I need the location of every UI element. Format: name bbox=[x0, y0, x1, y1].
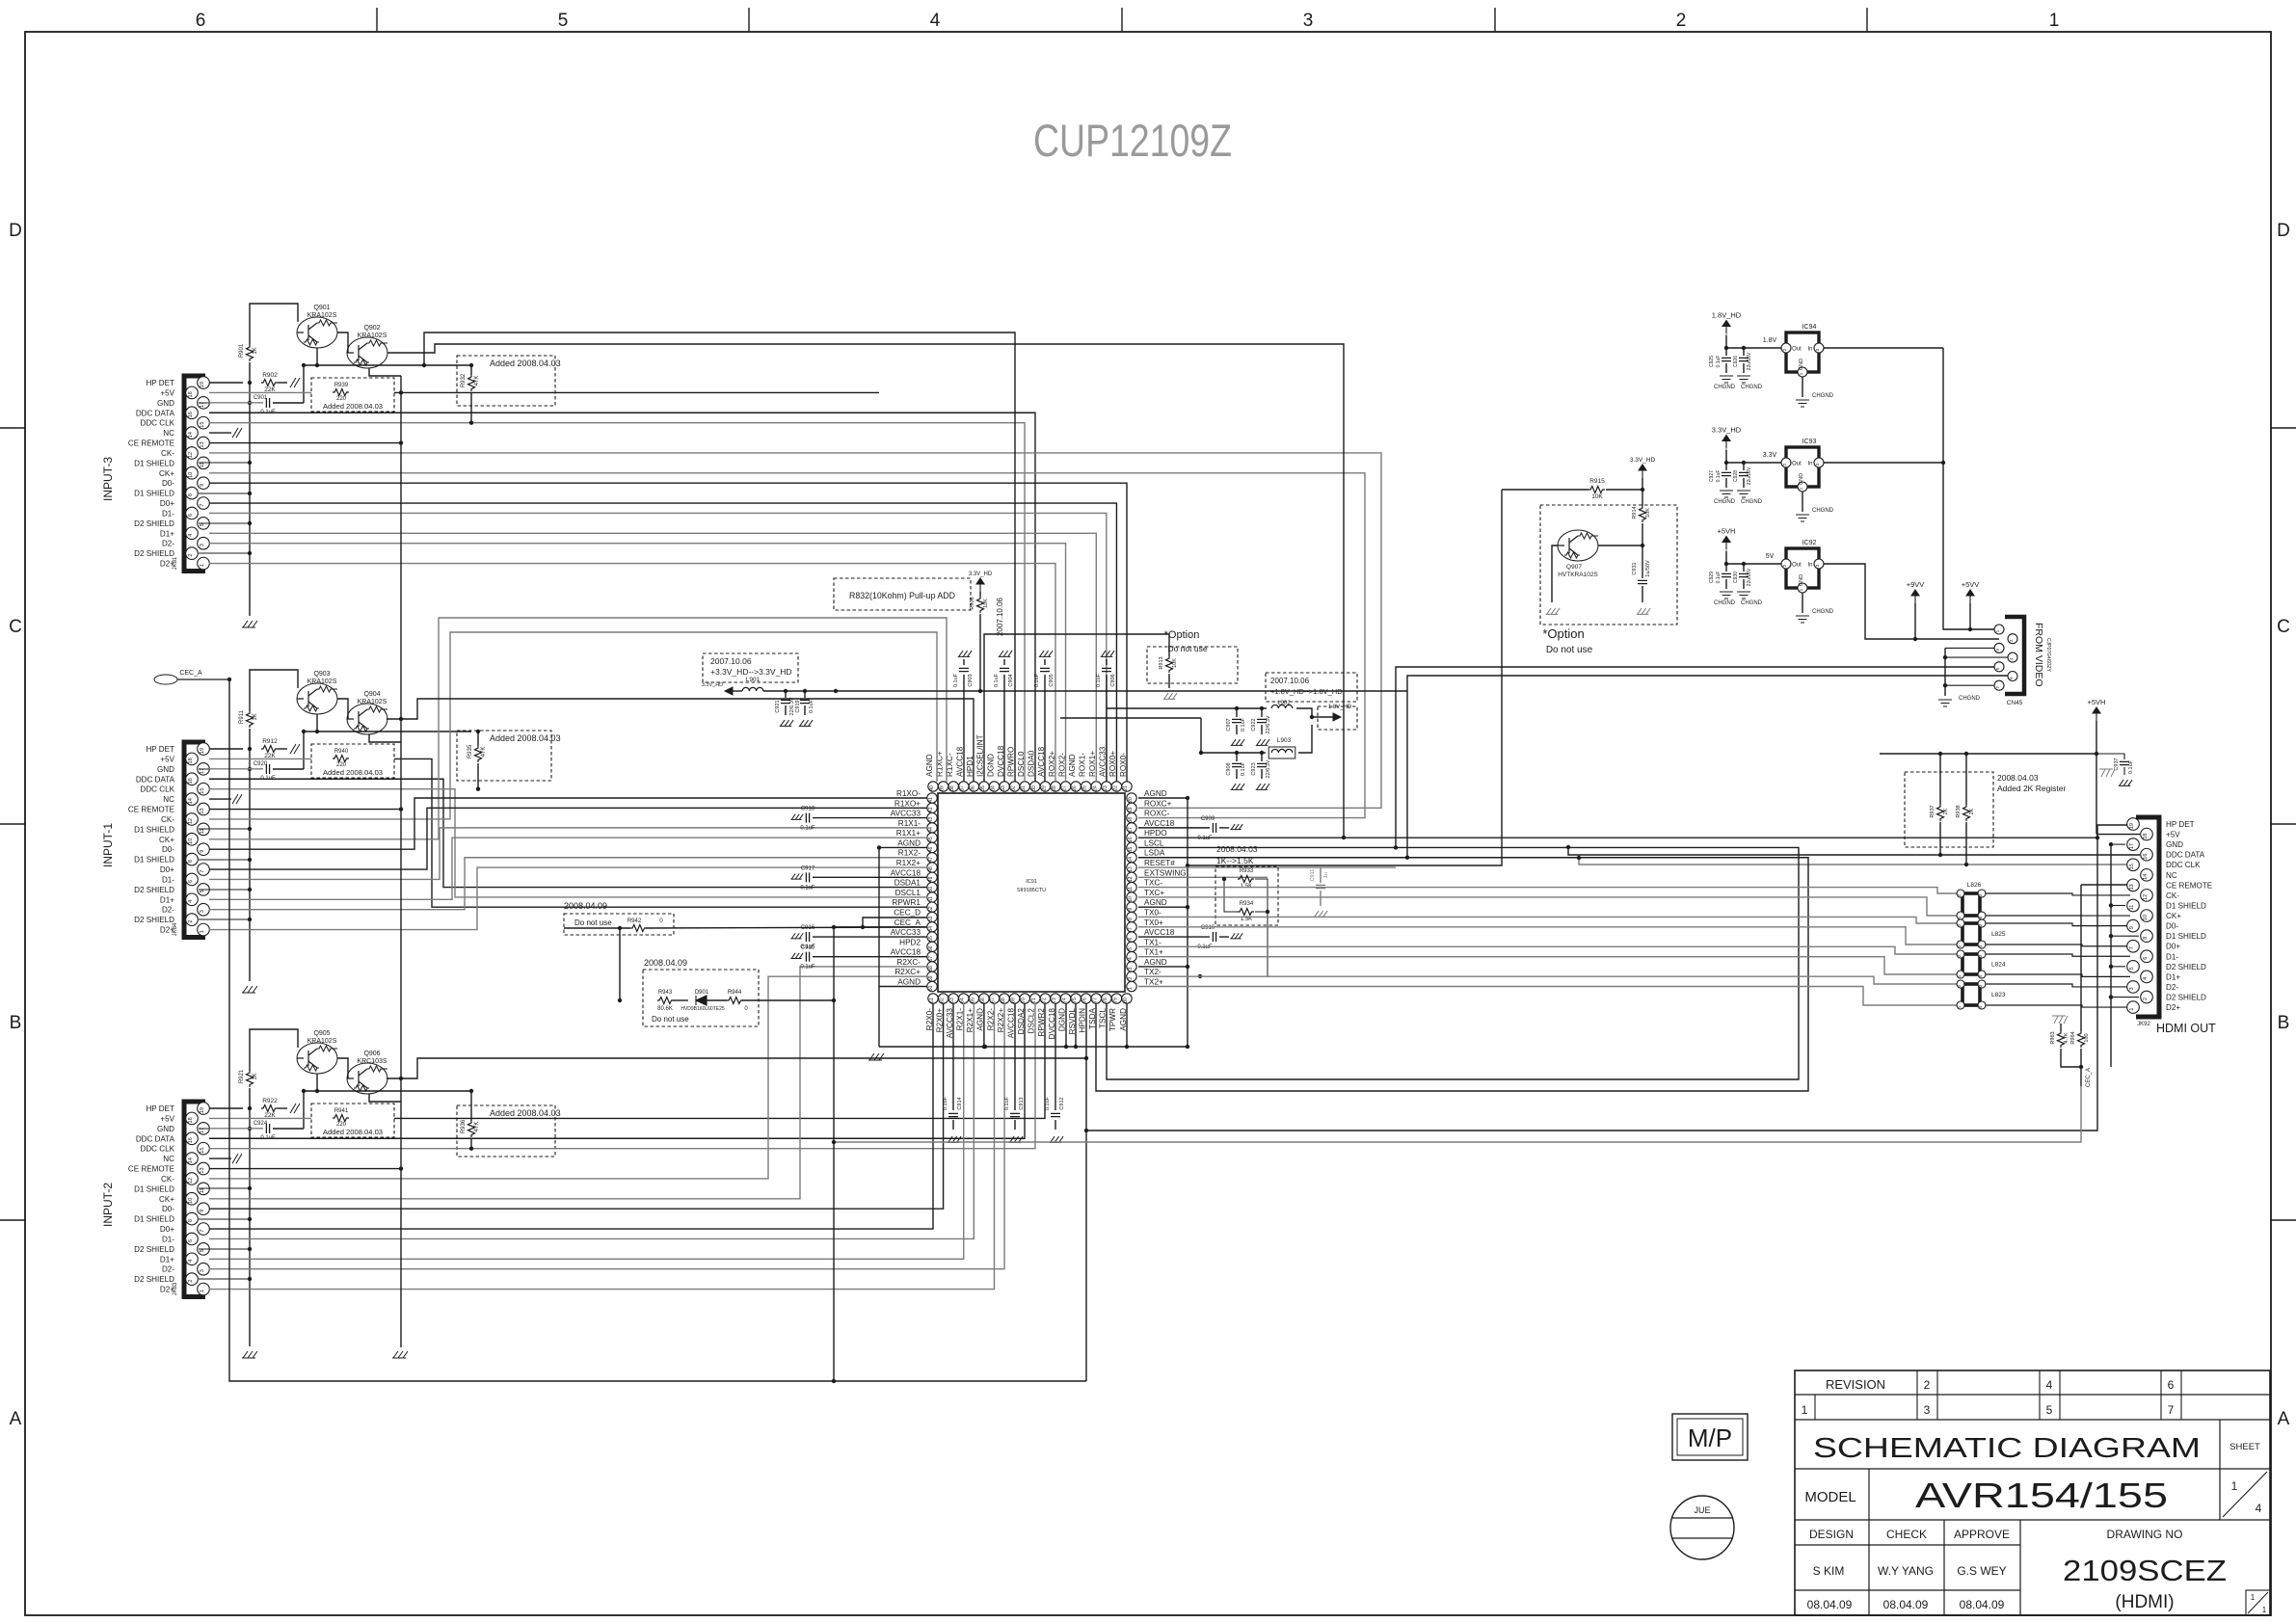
svg-text:+5VH: +5VH bbox=[1718, 527, 1736, 536]
capacitor C931 1u/50V bbox=[1642, 545, 1643, 578]
svg-text:18: 18 bbox=[1128, 817, 1134, 823]
wire HDMI shield stub pin 11 bbox=[2111, 904, 2125, 906]
IC pin 54 CEC_A (left) bbox=[927, 922, 937, 932]
connector JK84 pin 14 NC bbox=[186, 793, 199, 806]
IC pin 3 AGND (right) bbox=[1127, 962, 1136, 971]
wire INPUT-3 D2+ to ROX2+ bbox=[209, 564, 1055, 782]
svg-text:15: 15 bbox=[200, 788, 205, 794]
svg-text:10: 10 bbox=[188, 1198, 194, 1204]
IC pin 64 R2X1- (bottom) bbox=[959, 994, 969, 1003]
svg-text:R915: R915 bbox=[1589, 478, 1605, 485]
svg-text:13: 13 bbox=[2129, 884, 2135, 890]
svg-text:C916: C916 bbox=[801, 925, 815, 931]
svg-text:D1-: D1- bbox=[2166, 952, 2178, 961]
IC pin 31 DSCL0 (top) bbox=[1020, 782, 1029, 791]
IC pin 77 TSDA (bottom) bbox=[1091, 994, 1101, 1003]
box R933 R934 changed note bbox=[1215, 866, 1278, 925]
svg-text:AGND: AGND bbox=[1144, 789, 1167, 798]
svg-text:73: 73 bbox=[1052, 998, 1057, 1003]
connector JK92 HDMI OUT bracket bbox=[2136, 817, 2159, 1017]
svg-text:47: 47 bbox=[928, 857, 934, 863]
svg-text:22/6.3V: 22/6.3V bbox=[1266, 715, 1271, 733]
svg-text:Q901: Q901 bbox=[313, 305, 330, 311]
svg-text:42: 42 bbox=[928, 807, 934, 812]
wire INPUT-1 CK- loop to R1XC+ bbox=[209, 632, 937, 819]
svg-text:0.1uF: 0.1uF bbox=[1045, 1096, 1051, 1110]
svg-text:DDC CLK: DDC CLK bbox=[2166, 861, 2201, 869]
connector JK83 pin 3 D2- bbox=[198, 1263, 210, 1275]
svg-text:20: 20 bbox=[1128, 797, 1134, 803]
inductor L901 bbox=[733, 690, 742, 692]
svg-text:10K: 10K bbox=[1645, 508, 1651, 518]
svg-text:75: 75 bbox=[1072, 998, 1078, 1003]
svg-text:2007.10.06: 2007.10.06 bbox=[1270, 677, 1310, 685]
svg-text:B: B bbox=[2278, 1013, 2290, 1033]
connector JK92 pin 4 D1+ bbox=[2141, 971, 2153, 983]
wire R915 feed vertical bbox=[1188, 490, 1502, 865]
svg-text:C930: C930 bbox=[1733, 572, 1739, 583]
svg-text:NC: NC bbox=[2166, 871, 2177, 880]
wire collector line y379 bbox=[304, 731, 471, 732]
svg-text:AVCC18: AVCC18 bbox=[891, 948, 921, 957]
wire HDMI shield trunk bbox=[2110, 844, 2112, 997]
connector JK92 refdes bbox=[2137, 1022, 2150, 1027]
wire Q903 to Q904 bbox=[337, 699, 348, 719]
svg-text:17: 17 bbox=[1128, 827, 1134, 833]
svg-text:10: 10 bbox=[188, 472, 194, 478]
connector JK81 pin 16 DDC DATA bbox=[186, 407, 199, 419]
svg-text:47K: 47K bbox=[481, 747, 487, 758]
connector JK83 pin 15 DDC CLK bbox=[198, 1142, 210, 1155]
svg-text:12: 12 bbox=[188, 818, 194, 824]
svg-text:08.04.09: 08.04.09 bbox=[1883, 1598, 1929, 1611]
svg-text:11: 11 bbox=[2129, 905, 2135, 911]
svg-text:D1 SHIELD: D1 SHIELD bbox=[134, 825, 174, 834]
wire HP DET loop down to HPDIN bbox=[1086, 838, 2097, 1131]
wire INPUT-3 DDC CLK to DSCL0 bbox=[209, 423, 1025, 782]
connector JK84 pin 3 D2- bbox=[198, 903, 210, 916]
connector JK81 pin 3 D2- bbox=[198, 537, 210, 549]
svg-text:4: 4 bbox=[1128, 957, 1134, 960]
IC pin 50 DSDA1 (left) bbox=[927, 882, 937, 891]
connector CN45 pin 6 bbox=[2008, 672, 2017, 681]
svg-text:D0+: D0+ bbox=[2166, 943, 2180, 951]
title block outer bbox=[1795, 1370, 2270, 1615]
IC pin 66 AGND (bottom) bbox=[979, 994, 989, 1003]
svg-text:0.1uF: 0.1uF bbox=[809, 699, 814, 713]
regulator IC93 pins bbox=[1781, 458, 1791, 467]
svg-text:R1XO+: R1XO+ bbox=[894, 799, 921, 808]
svg-text:*Option: *Option bbox=[1542, 626, 1584, 641]
wire HDMI shield stub pin 5 bbox=[2111, 966, 2125, 968]
svg-text:R942: R942 bbox=[627, 918, 642, 924]
svg-text:5: 5 bbox=[2046, 1403, 2053, 1417]
svg-text:13: 13 bbox=[200, 808, 205, 813]
no-connect slash on HP DET line bbox=[290, 744, 300, 754]
IC pin 9 AGND (right) bbox=[1127, 902, 1136, 912]
resistor R912 22K bbox=[261, 746, 278, 753]
box 1.8V_HD arrow bbox=[1318, 706, 1357, 730]
svg-text:C926: C926 bbox=[1733, 356, 1739, 367]
choke L824 bbox=[1962, 954, 1980, 974]
svg-text:2K: 2K bbox=[1969, 808, 1975, 814]
wire INPUT-3 CK- to ROXC+ bbox=[209, 453, 1381, 808]
choke L824 pins bbox=[1957, 950, 1964, 958]
svg-text:ROX1-: ROX1- bbox=[1079, 753, 1087, 777]
connector JK83 pin 2 D2 SHIELD bbox=[186, 1273, 199, 1286]
svg-text:49: 49 bbox=[928, 876, 934, 882]
svg-text:D2 SHIELD: D2 SHIELD bbox=[2166, 994, 2206, 1002]
svg-text:37: 37 bbox=[960, 785, 966, 791]
resistor R915 10K bbox=[1502, 489, 1589, 491]
column tick marks top bbox=[377, 8, 1867, 32]
svg-text:D0+: D0+ bbox=[160, 1225, 174, 1234]
svg-text:Do not use: Do not use bbox=[652, 1015, 689, 1024]
svg-text:Do not use: Do not use bbox=[1546, 645, 1593, 655]
svg-text:DDC CLK: DDC CLK bbox=[140, 785, 174, 794]
svg-text:D1 SHIELD: D1 SHIELD bbox=[134, 1184, 174, 1193]
connector CN45 pin 1 bbox=[1994, 625, 2004, 634]
svg-text:SHEET: SHEET bbox=[2229, 1442, 2260, 1452]
transistor Q901 KRA102S bbox=[297, 317, 337, 348]
svg-text:D0+: D0+ bbox=[160, 499, 174, 508]
IC pin 40 AGND (top) bbox=[928, 782, 938, 791]
connector JK83 pin 5 D2 SHIELD bbox=[198, 1243, 210, 1256]
resistor R921 1K bbox=[247, 1071, 254, 1087]
capacitor input IC92 b bbox=[1743, 564, 1745, 572]
svg-text:C921: C921 bbox=[775, 700, 781, 712]
svg-text:R938: R938 bbox=[1956, 805, 1962, 817]
power +5VH arrow at HDMI bbox=[2093, 707, 2100, 721]
IC pin 37 AVCC18 (top) bbox=[959, 782, 969, 791]
svg-text:C: C bbox=[9, 617, 22, 637]
wire CEC_A up to IC pin 54 bbox=[834, 927, 927, 1381]
svg-text:12: 12 bbox=[188, 452, 194, 458]
capacitor input IC93 b bbox=[1743, 463, 1745, 470]
added-2008 box R932 bbox=[457, 356, 555, 406]
svg-text:47K: 47K bbox=[474, 376, 480, 386]
svg-text:+5V: +5V bbox=[160, 755, 174, 763]
choke L823 pins bbox=[1957, 980, 1964, 988]
IC pin 63 AVCC33 (bottom) bbox=[948, 994, 958, 1003]
wire 1.8V_HD rail lower bbox=[1201, 718, 1266, 753]
svg-text:SII9185CTU: SII9185CTU bbox=[1017, 888, 1046, 893]
wire AGND stub right bbox=[1138, 797, 1188, 799]
svg-text:71: 71 bbox=[1031, 998, 1037, 1003]
IC pin 33 DVCC18 (top) bbox=[1000, 782, 1009, 791]
svg-text:3: 3 bbox=[2129, 987, 2135, 990]
wire HPDIN trunk down bbox=[1085, 1003, 1087, 1381]
svg-text:M/P: M/P bbox=[1688, 1423, 1732, 1452]
svg-text:1K: 1K bbox=[253, 1073, 258, 1079]
capacitor C901 0.1uF bbox=[266, 398, 269, 408]
svg-text:In: In bbox=[1807, 347, 1812, 353]
svg-text:GND: GND bbox=[1799, 359, 1804, 370]
wire shield stub bbox=[199, 1187, 250, 1189]
wire IC94 IC93 input trunk bbox=[1824, 347, 1943, 349]
svg-text:R832(10Kohm) Pull-up ADD: R832(10Kohm) Pull-up ADD bbox=[849, 591, 955, 600]
regulator IC92 pins bbox=[1781, 559, 1791, 569]
IC pin 29 AVCC18 (top) bbox=[1040, 782, 1050, 791]
svg-text:R943: R943 bbox=[658, 990, 673, 996]
svg-text:5: 5 bbox=[558, 11, 569, 31]
capacitor C904 0.1uF bbox=[1003, 675, 1005, 782]
svg-text:C931: C931 bbox=[1632, 562, 1638, 574]
svg-text:R933: R933 bbox=[1240, 868, 1254, 874]
connector JK84 pin 2 D2 SHIELD bbox=[186, 914, 199, 926]
svg-text:AVCC33: AVCC33 bbox=[891, 810, 921, 818]
connector JK84 pin 13 CE REMOTE bbox=[198, 803, 210, 815]
connector JK84 pin 7 D0+ bbox=[198, 864, 210, 876]
IC pin 41 R1XO- (left) bbox=[927, 793, 937, 803]
svg-text:AVCC18: AVCC18 bbox=[956, 746, 965, 777]
connector CN45 pin 7 bbox=[1994, 680, 2004, 690]
svg-text:32: 32 bbox=[1011, 785, 1017, 791]
svg-text:R964: R964 bbox=[2070, 1031, 2076, 1044]
svg-text:1: 1 bbox=[2049, 11, 2060, 31]
svg-text:D2+: D2+ bbox=[160, 926, 174, 935]
connector JK84 pin 15 DDC CLK bbox=[198, 783, 210, 795]
IC pin 57 AVCC18 (left) bbox=[927, 951, 937, 961]
svg-text:CEC_D: CEC_D bbox=[894, 908, 921, 917]
svg-text:7: 7 bbox=[2168, 1403, 2175, 1417]
IC pin 19 ROXC+ (right) bbox=[1127, 803, 1136, 812]
svg-text:29: 29 bbox=[1041, 785, 1047, 791]
connector JK81 INPUT-3 bracket bbox=[184, 376, 205, 572]
resistor R933 1.5K bbox=[1238, 876, 1254, 883]
svg-text:C920: C920 bbox=[254, 761, 268, 767]
column numbers bbox=[196, 11, 206, 31]
wire Q905 to Q906 bbox=[337, 1058, 348, 1078]
svg-text:DDC DATA: DDC DATA bbox=[2166, 851, 2205, 860]
connector JK84 pin 16 DDC DATA bbox=[186, 773, 199, 785]
ground AGND left of IC bbox=[879, 846, 927, 848]
IC pin 6 AVCC18 (right) bbox=[1127, 932, 1136, 942]
connector JK81 label INPUT-3 bbox=[101, 457, 115, 501]
svg-text:TPWR: TPWR bbox=[1108, 1008, 1117, 1031]
svg-text:2007.10.06: 2007.10.06 bbox=[710, 656, 752, 666]
svg-text:70: 70 bbox=[1021, 998, 1027, 1003]
IC pin 43 AVCC33 (left) bbox=[927, 812, 937, 822]
svg-text:R921: R921 bbox=[239, 1069, 245, 1083]
svg-text:2: 2 bbox=[1128, 977, 1134, 980]
connector JK84 pin 1 D2+ bbox=[198, 923, 210, 936]
svg-text:DESIGN: DESIGN bbox=[1809, 1528, 1854, 1541]
svg-text:NC: NC bbox=[163, 795, 174, 804]
wire Q906 HPDIN route bbox=[387, 1058, 1086, 1078]
regulator IC94 gnd wire bbox=[1802, 377, 1803, 397]
IC pin 68 R2X2+ (bottom) bbox=[1000, 994, 1009, 1003]
wire choke output 1 bbox=[1986, 915, 2130, 917]
svg-text:CK-: CK- bbox=[161, 815, 174, 824]
svg-text:6: 6 bbox=[196, 11, 206, 31]
svg-text:D2 SHIELD: D2 SHIELD bbox=[134, 1245, 174, 1254]
IC pin 76 HPDIN (bottom) bbox=[1081, 994, 1091, 1003]
svg-text:C915: C915 bbox=[801, 945, 815, 951]
svg-text:AVCC18: AVCC18 bbox=[891, 868, 921, 877]
svg-text:R1X1+: R1X1+ bbox=[896, 829, 921, 838]
wire shield stub bbox=[199, 522, 250, 524]
svg-text:Do not use: Do not use bbox=[1167, 644, 1207, 653]
svg-text:AVCC18: AVCC18 bbox=[1144, 819, 1175, 828]
connector CN45 pin 3 bbox=[1994, 643, 2004, 652]
svg-text:R941: R941 bbox=[334, 1108, 349, 1114]
net label CEC_A oval bbox=[154, 675, 229, 684]
connector JK83 pin 1 D2+ bbox=[198, 1283, 210, 1295]
svg-text:R1X1-: R1X1- bbox=[898, 819, 921, 828]
wire Q904 emitter to trunk bbox=[369, 734, 401, 742]
svg-text:C901: C901 bbox=[254, 395, 268, 401]
svg-text:D0+: D0+ bbox=[160, 865, 174, 874]
wire INPUT-1 DDC CLK to DSCL1 bbox=[209, 789, 927, 897]
wire LSDA loop to TSDA bbox=[1096, 858, 1808, 1091]
IC pin 5 TX1- (right) bbox=[1127, 942, 1136, 951]
IC pin 38 R1XC- (top) bbox=[948, 782, 958, 791]
connector JK81 pin 17 GND bbox=[198, 397, 210, 410]
wire R942 CEC_A line bbox=[564, 927, 630, 929]
svg-text:D1 SHIELD: D1 SHIELD bbox=[134, 856, 174, 865]
svg-text:KRA102S: KRA102S bbox=[358, 699, 387, 705]
svg-text:0.1uF: 0.1uF bbox=[1034, 673, 1040, 687]
transistor Q902 KRA102S bbox=[347, 337, 387, 368]
power arrow 1.8V_HD bbox=[1722, 321, 1730, 334]
capacitor C912 0.1uF bbox=[1055, 1003, 1056, 1110]
wire ground trunk x258 bbox=[249, 1088, 251, 1346]
regulator IC94 output wire bbox=[1726, 347, 1781, 349]
no-connect slash on HP DET line bbox=[290, 1104, 300, 1113]
svg-text:67: 67 bbox=[990, 998, 996, 1003]
svg-text:A: A bbox=[2278, 1409, 2290, 1429]
regulator IC92 body bbox=[1786, 548, 1819, 588]
capacitor input IC92 a bbox=[1725, 564, 1727, 572]
svg-text:3: 3 bbox=[200, 910, 205, 913]
resistor R914 10K bbox=[1642, 490, 1643, 506]
svg-text:33: 33 bbox=[1001, 785, 1006, 791]
svg-text:16: 16 bbox=[188, 778, 194, 784]
wire INPUT-3 D2- to ROX2- bbox=[209, 544, 1066, 782]
wire CEC_A long route bbox=[229, 679, 1086, 1381]
svg-text:D0-: D0- bbox=[162, 845, 174, 854]
connector JK81 pin 14 NC bbox=[186, 427, 199, 439]
svg-text:AVCC18: AVCC18 bbox=[1006, 1008, 1015, 1039]
wire shield stub bbox=[199, 828, 250, 830]
svg-text:22: 22 bbox=[1112, 785, 1118, 791]
svg-text:TX1+: TX1+ bbox=[1144, 948, 1163, 957]
wire R934 to TX line bbox=[1200, 912, 1268, 976]
resistor R932 47K bbox=[468, 375, 475, 391]
svg-text:2007.10.06: 2007.10.06 bbox=[996, 597, 1004, 636]
wire INPUT-2 +5V to RPWR2 bbox=[209, 1117, 311, 1119]
svg-text:15: 15 bbox=[200, 422, 205, 428]
title block design check approve bbox=[1795, 1520, 2020, 1615]
wire INPUT-3 D1- to ROX1- bbox=[209, 513, 1107, 782]
svg-text:L824: L824 bbox=[1991, 962, 2006, 969]
svg-text:D2-: D2- bbox=[162, 1265, 174, 1274]
wire INPUT-1 GND to C920 bbox=[209, 768, 263, 770]
svg-text:R944: R944 bbox=[728, 990, 742, 996]
wire AGND right trunk x1232 bbox=[1187, 798, 1188, 1047]
wire HDMI shield stub pin 2 bbox=[2111, 997, 2139, 998]
svg-text:7: 7 bbox=[2129, 946, 2135, 949]
svg-text:(HDMI): (HDMI) bbox=[2115, 1592, 2174, 1612]
connector JK84 INPUT-1 bracket bbox=[184, 742, 205, 938]
resistor R943 80.6K bbox=[657, 998, 674, 1004]
svg-text:13: 13 bbox=[1128, 866, 1134, 872]
svg-text:100: 100 bbox=[2084, 1033, 2090, 1042]
svg-text:18: 18 bbox=[188, 758, 194, 763]
svg-text:HPDIN: HPDIN bbox=[1079, 1008, 1087, 1033]
IC pin 75 RSVDL (bottom) bbox=[1071, 994, 1081, 1003]
capacitor C905 0.1uF bbox=[1044, 675, 1046, 782]
IC pin 56 HPD2 (left) bbox=[927, 942, 937, 951]
connector JK83 pin 8 D1 SHIELD bbox=[186, 1212, 199, 1225]
svg-text:1: 1 bbox=[1802, 1403, 1808, 1417]
connector JK81 pin 4 D1+ bbox=[186, 527, 199, 540]
wire HDMI DDC CLK from LSDA bbox=[1579, 858, 2126, 865]
svg-text:DRAWING NO: DRAWING NO bbox=[2107, 1528, 2183, 1541]
svg-text:LSCL: LSCL bbox=[1144, 838, 1164, 847]
svg-text:Do not use: Do not use bbox=[574, 918, 612, 927]
svg-text:GND: GND bbox=[1799, 574, 1804, 586]
svg-text:CHGND: CHGND bbox=[1741, 499, 1763, 505]
svg-text:L826: L826 bbox=[1967, 882, 1982, 889]
connector JK83 pin 14 NC bbox=[186, 1153, 199, 1165]
svg-text:2: 2 bbox=[1924, 1378, 1931, 1392]
IC pin 62 R2X0+ (bottom) bbox=[938, 994, 948, 1003]
svg-text:0.1uF: 0.1uF bbox=[953, 673, 959, 687]
svg-text:D1 SHIELD: D1 SHIELD bbox=[134, 1215, 174, 1224]
svg-text:2: 2 bbox=[1676, 11, 1687, 31]
svg-text:16: 16 bbox=[188, 412, 194, 417]
connector JK92 pin 5 D2 SHIELD bbox=[2127, 961, 2140, 973]
connector JK84 pin 6 D1- bbox=[186, 873, 199, 886]
svg-text:DDC DATA: DDC DATA bbox=[136, 409, 175, 417]
transistor Q903 KRA102S bbox=[297, 683, 337, 714]
resistor R936 47K bbox=[468, 1121, 475, 1137]
svg-text:D1-: D1- bbox=[162, 875, 174, 884]
svg-text:R902: R902 bbox=[262, 372, 278, 379]
wire HDMI shield stub pin 8 bbox=[2111, 935, 2139, 937]
connector JK83 pin 10 CK+ bbox=[186, 1192, 199, 1205]
wire AGND bottom bus bbox=[879, 1046, 1188, 1048]
connector JK83 label INPUT-2 bbox=[101, 1183, 115, 1227]
svg-text:HP DET: HP DET bbox=[146, 745, 174, 754]
svg-text:Q907: Q907 bbox=[1566, 564, 1582, 571]
svg-text:Q906: Q906 bbox=[363, 1051, 380, 1057]
wire R942 to D901 line bbox=[619, 928, 621, 1000]
svg-text:CK-: CK- bbox=[161, 1175, 174, 1184]
capacitor C915 0.1uF bbox=[806, 952, 809, 962]
power arrow 3.3V_HD left bbox=[725, 687, 733, 695]
connector JK83 pin 11 D1 SHIELD bbox=[198, 1183, 210, 1195]
svg-text:GND: GND bbox=[157, 765, 174, 774]
svg-text:22u/16V: 22u/16V bbox=[1747, 466, 1752, 485]
wire INPUT-2 D1- to R2X1+ bbox=[209, 1003, 974, 1238]
svg-text:4: 4 bbox=[188, 900, 194, 903]
IC pin 24 ROX1+ (top) bbox=[1091, 782, 1101, 791]
IC pin 39 R1XC+ (top) bbox=[938, 782, 948, 791]
added-2008 box R941 bbox=[311, 1104, 394, 1137]
IC pin 73 DVCC18 (bottom) bbox=[1051, 994, 1060, 1003]
IC pin 32 RPWRO (top) bbox=[1009, 782, 1019, 791]
svg-text:2: 2 bbox=[2143, 998, 2149, 1000]
IC pin 59 R2XC+ (left) bbox=[927, 971, 937, 981]
svg-text:LSDA: LSDA bbox=[1144, 849, 1165, 858]
IC pin 48 R1X2+ (left) bbox=[927, 863, 937, 872]
power arrow 3.3V_HD bbox=[1722, 436, 1730, 449]
svg-text:CHGND: CHGND bbox=[1812, 393, 1834, 399]
svg-text:1K: 1K bbox=[253, 347, 258, 354]
